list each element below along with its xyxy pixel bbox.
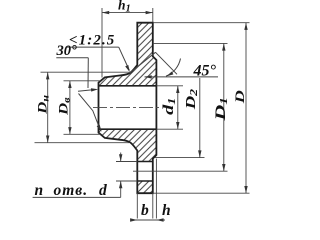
flange body section hatching (upper half): [99, 23, 157, 86]
D1 upper extension line: [153, 42, 228, 44]
svg-text:b: b: [141, 202, 149, 219]
h1 dimension line: [102, 12, 153, 14]
bolt hole lower edge extension: [116, 180, 137, 182]
taper label shelf: [66, 46, 119, 48]
svg-text:45°: 45°: [193, 63, 217, 80]
D2 dimension line: [199, 78, 201, 158]
Dn lower extension line: [35, 142, 130, 144]
b/h extension line (disc left face): [136, 193, 138, 218]
h1 left extension line: [101, 8, 103, 78]
bolt hole dia dimension lower segment / leader: [120, 181, 122, 197]
flange outer profile (section outline): [99, 23, 157, 194]
n otv. d label shelf: [33, 196, 121, 198]
h1 right extension line: [152, 8, 154, 22]
45 deg angle arc: [166, 59, 181, 77]
bolt hole upper edge: [137, 161, 153, 163]
30 deg second leader to lower bevel: [79, 94, 100, 129]
30 deg shelf: [56, 57, 88, 59]
D1 dimension line: [223, 43, 225, 171]
Dv upper extension line: [64, 80, 101, 82]
30 deg arrow to hub end face: [78, 90, 94, 92]
b/h extension line (disc right face): [152, 193, 154, 218]
d1 lower extension line: [156, 128, 183, 130]
transition cone extension line: [130, 52, 156, 73]
bolt hole upper edge extension: [116, 161, 137, 163]
45 deg shelf with arrow: [145, 76, 219, 78]
Dv lower extension line: [64, 133, 101, 135]
bore d1 lower edge: [99, 128, 157, 130]
Dn dimension line: [47, 72, 49, 143]
b/h extension line (boss face): [155, 159, 157, 219]
bolt hole axis / D1 lower extension: [133, 170, 228, 172]
d1 upper extension line: [156, 85, 183, 87]
svg-text:n: n: [35, 182, 44, 199]
bolt hole lower edge: [137, 180, 153, 182]
svg-text:D: D: [234, 90, 248, 104]
taper leader: [119, 47, 130, 70]
svg-text:h: h: [162, 202, 171, 219]
flange body section hatching (lower half, below bolt hole): [137, 181, 153, 193]
D2 lower extension line: [155, 157, 205, 159]
svg-text:отв.: отв.: [54, 182, 89, 199]
30 deg leader vertical segment: [87, 58, 89, 88]
flange body section hatching (lower half, above bolt hole): [99, 129, 157, 161]
Dn upper extension line: [41, 71, 129, 73]
main axis centerline: [93, 107, 159, 109]
svg-text:d: d: [99, 182, 107, 199]
b/h dimension line: [131, 219, 166, 221]
D dimension line: [245, 23, 247, 194]
bolt hole dia dimension upper segment: [120, 153, 122, 162]
Dv dimension line: [69, 81, 71, 135]
bore d1 upper edge: [99, 85, 157, 87]
D upper extension line: [153, 22, 250, 24]
d1 dimension line: [177, 86, 179, 129]
svg-text:30°: 30°: [56, 43, 78, 59]
D lower extension line: [153, 192, 250, 194]
45 deg second side line: [156, 52, 178, 74]
